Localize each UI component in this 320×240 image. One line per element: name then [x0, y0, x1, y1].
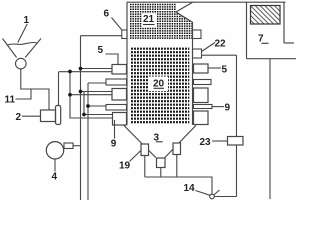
svg-text:19: 19	[119, 161, 131, 172]
dot fill furnace lower chamber 20	[131, 49, 189, 123]
wire burner feed y94.7	[70, 94, 112, 96]
gas outlet notch upper diagonal	[176, 2, 193, 12]
blower rounded bar	[56, 106, 61, 125]
enclosure 7 bottom	[247, 58, 297, 60]
furnace top line and duct to heat exchanger	[127, 1, 286, 3]
furnace left wall	[126, 2, 128, 125]
bottom outlet box 3	[157, 158, 166, 168]
wire 22 pipe to downcomer	[202, 54, 237, 56]
slope nozzle box right	[173, 143, 181, 155]
wire downcomer vertical	[236, 55, 238, 196]
hopper right slope	[25, 39, 41, 58]
enclosure 7 right wall	[283, 2, 285, 43]
wire right nozzle riser	[176, 155, 178, 178]
wire burner feed y68.5	[81, 68, 113, 70]
svg-text:14: 14	[184, 183, 196, 194]
hopper left slope	[3, 39, 17, 58]
wire flue downcomer from enclosure 7	[269, 59, 271, 199]
leader of 5 left	[106, 54, 119, 65]
left manifold risers	[59, 36, 113, 200]
underline of 20	[154, 87, 165, 89]
furnace right wall	[192, 22, 194, 125]
feed hopper 1	[3, 39, 42, 69]
wire burner feed y83	[88, 82, 107, 84]
wire burner feed y106	[88, 105, 107, 107]
enclosure 7 outlet step	[284, 42, 294, 44]
heat exchanger enclosure 7 left wall	[246, 2, 248, 59]
label patch 21	[142, 14, 157, 28]
right burner box R3	[194, 88, 209, 103]
svg-text:5: 5	[98, 45, 104, 56]
svg-text:23: 23	[200, 137, 212, 148]
feeder box 2	[41, 110, 56, 122]
svg-text:9: 9	[111, 138, 117, 149]
leader of 19	[130, 151, 141, 162]
leader of 2	[22, 115, 41, 117]
hopper right slope	[165, 125, 196, 157]
wire burner feed y71.5	[59, 71, 112, 73]
wire bus L3	[83, 92, 85, 115]
wire bus L4 long	[87, 83, 89, 200]
svg-text:2: 2	[16, 112, 22, 123]
secondary air port 6 box	[122, 30, 127, 39]
hopper material wavy level	[8, 42, 37, 45]
right burner box R1	[194, 64, 209, 73]
drain valve circle 14	[210, 194, 215, 199]
leader of 9 right	[212, 106, 224, 108]
dot fill furnace upper chamber 21	[130, 5, 192, 39]
left burner box E	[113, 113, 127, 126]
leader of 6	[112, 18, 123, 31]
wire bus L1	[70, 72, 113, 119]
svg-text:9: 9	[225, 102, 231, 113]
wire 11 feed line	[16, 89, 32, 99]
leader of 23	[212, 140, 228, 142]
wire left nozzle riser	[144, 156, 146, 178]
label patch 20	[148, 77, 168, 92]
svg-text:4: 4	[52, 171, 58, 182]
wire 6 air line	[81, 35, 122, 37]
left burner box D	[106, 105, 127, 111]
underline of 7	[262, 42, 269, 44]
pump 4	[46, 142, 63, 159]
underline of 21	[143, 24, 155, 26]
junction dots	[68, 67, 90, 117]
heat exchanger hatched block	[251, 6, 281, 25]
cyclone return box 22	[193, 49, 202, 58]
wire pump outlet	[73, 145, 81, 147]
underline of 3	[156, 141, 163, 143]
svg-text:6: 6	[104, 9, 110, 20]
leader of 5 right	[208, 67, 221, 69]
leader of 4	[54, 159, 56, 171]
slope nozzle box left	[141, 144, 149, 156]
ash collection piping	[145, 155, 212, 195]
left burner box A	[112, 65, 127, 75]
wire collection header	[145, 177, 212, 194]
svg-text:21: 21	[143, 14, 155, 25]
svg-text:22: 22	[215, 39, 227, 50]
leader of 9 left	[114, 120, 116, 139]
svg-text:11: 11	[5, 95, 16, 106]
wire burner feed y91.5	[81, 91, 113, 93]
leader of 22	[202, 43, 216, 52]
wire blower up line	[58, 72, 60, 106]
wire bus L2 long	[80, 36, 82, 200]
wire burner feed y114.5	[84, 114, 113, 116]
pump outlet box	[64, 143, 73, 149]
wire hopper down pipe	[21, 69, 49, 110]
leader of 1	[18, 24, 27, 43]
wire center outlet riser	[160, 168, 162, 178]
fan box 23	[228, 137, 244, 146]
svg-text:5: 5	[222, 64, 228, 75]
right wall port box above 22	[193, 30, 202, 39]
leader of 14	[196, 191, 211, 196]
rotary valve circle	[15, 58, 26, 69]
valve stub	[214, 190, 220, 195]
right burner box R5	[194, 111, 209, 125]
left burner box C	[112, 89, 127, 101]
right burner box R2	[194, 80, 212, 85]
right burner box R4	[194, 105, 213, 109]
hopper left slope	[124, 125, 156, 157]
wire drain to downcomer	[214, 196, 236, 198]
gas outlet notch lower diagonal	[176, 12, 193, 22]
left burner box B	[106, 79, 127, 85]
